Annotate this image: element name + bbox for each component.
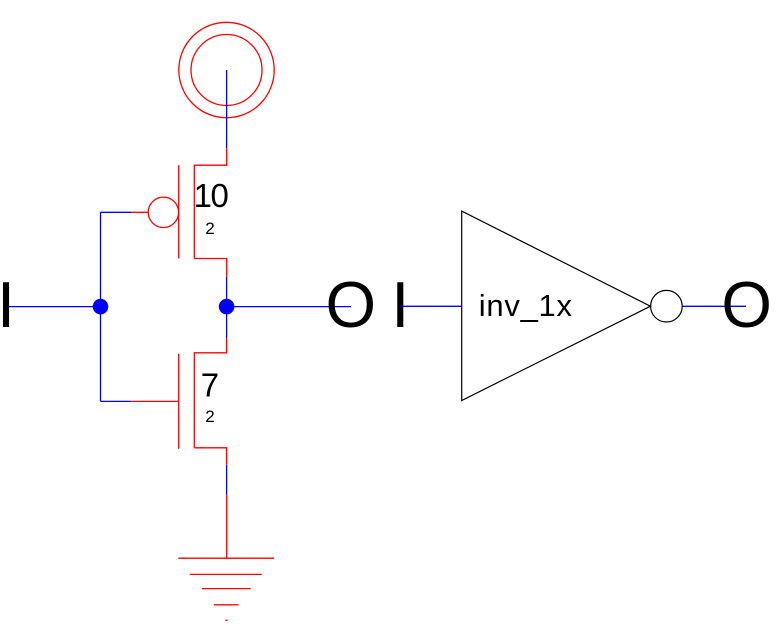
inverter symbol U1 triangle xyxy=(462,211,651,400)
svg-text:O: O xyxy=(721,268,772,341)
svg-text:2: 2 xyxy=(205,407,214,426)
svg-text:7: 7 xyxy=(201,366,219,403)
wire nMOS source to ground xyxy=(226,465,228,495)
ground xyxy=(178,495,274,621)
svg-text:O: O xyxy=(326,268,377,341)
svg-text:2: 2 xyxy=(205,219,214,238)
svg-text:I: I xyxy=(0,268,15,341)
wire input I to junction xyxy=(6,306,101,308)
wire symbol input xyxy=(400,305,462,307)
wire input vertical (pMOS gate to nMOS gate) xyxy=(100,212,102,401)
wire symbol output to O xyxy=(682,305,746,307)
power VDD xyxy=(179,22,274,117)
svg-text:I: I xyxy=(391,268,409,341)
inverter symbol U1 output bubble xyxy=(651,290,683,322)
node output junction xyxy=(219,299,235,315)
wire to nMOS gate xyxy=(101,400,132,402)
transistor Q2 nMOS xyxy=(131,338,226,464)
transistor Q1 pMOS xyxy=(131,148,227,277)
node input junction xyxy=(93,299,109,315)
wire to pMOS gate xyxy=(101,211,132,213)
svg-text:10: 10 xyxy=(194,177,229,214)
wire pMOS drain to nMOS drain (output vertical) xyxy=(226,277,228,339)
svg-text:inv_1x: inv_1x xyxy=(479,288,573,323)
wire VDD to pMOS source xyxy=(226,70,228,148)
wire output junction to O xyxy=(227,306,351,308)
